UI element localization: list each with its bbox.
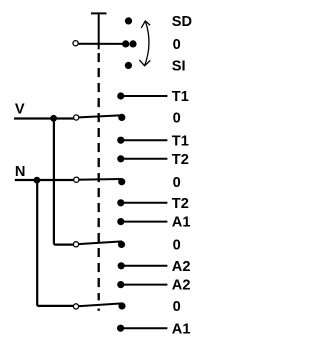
wire stub A1 (up) [121,221,168,223]
fixed contact A1 (down) [117,325,124,332]
arm P1 (V pole) [76,115,122,117]
wire: top pole arm to 0 contact [76,43,126,45]
svg-text:T2: T2 [172,196,189,212]
wire N supply [15,179,77,181]
svg-text:0: 0 [173,175,181,191]
rotation arrow [139,21,150,66]
wire stub T2 (up) [121,158,168,160]
rotation axis cap bar [91,12,107,14]
svg-text:A1: A1 [172,215,191,231]
fixed contact T1 (down) [117,137,124,144]
svg-text:T1: T1 [172,133,189,149]
movable contact pivot P3 [73,242,78,247]
fixed contact 0 (pole P4) [118,302,125,309]
fixed contact 0 (top group) [129,40,136,47]
svg-text:A2: A2 [172,259,191,275]
fixed contact T2 (up) [117,155,124,162]
fixed contact A2 (up) [117,281,124,288]
fixed contact 0 (pole P1) [118,114,125,121]
wire stub T2 (down) [121,202,168,204]
fixed contact A2 (down) [118,262,125,269]
svg-text:0: 0 [173,37,181,53]
fixed contact SD [125,17,132,24]
switch shaft dashed line [98,53,100,300]
svg-text:V: V [15,101,25,117]
rotation axis shaft (solid) [98,12,100,49]
wire stub A2 (up) [121,284,168,286]
wire stub T1 (up) [121,95,168,97]
svg-text:0: 0 [173,111,181,127]
svg-text:A1: A1 [172,321,191,337]
fixed contact 0 (pole P3) [118,241,125,248]
wire N drop to pole P4 [37,180,76,306]
svg-text:N: N [15,164,26,180]
wire stub A2 (down) [121,265,167,267]
arm P4 [76,303,122,306]
svg-text:SI: SI [172,59,186,75]
fixed contact A1 (up) [117,218,124,225]
wire stub T1 (down) [121,139,168,141]
fixed contact 0 (pole P2) [118,178,125,185]
movable contact pivot P1 [74,115,79,120]
svg-text:0: 0 [173,238,181,254]
arm P2 (N pole) [76,178,121,181]
svg-text:A2: A2 [172,278,191,294]
fixed contact T2 (down) [117,199,124,206]
node: arm tip dot [122,40,129,47]
movable contact pivot P4 [73,304,78,309]
wire V supply [14,117,76,119]
junction V [50,115,57,122]
svg-text:0: 0 [173,299,181,315]
arm P3 [76,241,122,244]
switch shaft dashed line (last nub) [97,309,99,311]
wire V drop to pole P3 [54,119,76,245]
svg-text:T1: T1 [172,89,189,105]
fixed contact T1 (up) [117,92,124,99]
svg-text:T2: T2 [172,152,189,168]
svg-text:SD: SD [172,14,192,30]
movable contact pivot P0 [73,41,78,46]
wire stub A1 (down) [121,327,168,329]
movable contact pivot P2 [74,177,79,182]
junction N [34,177,41,184]
fixed contact SI [125,62,132,69]
